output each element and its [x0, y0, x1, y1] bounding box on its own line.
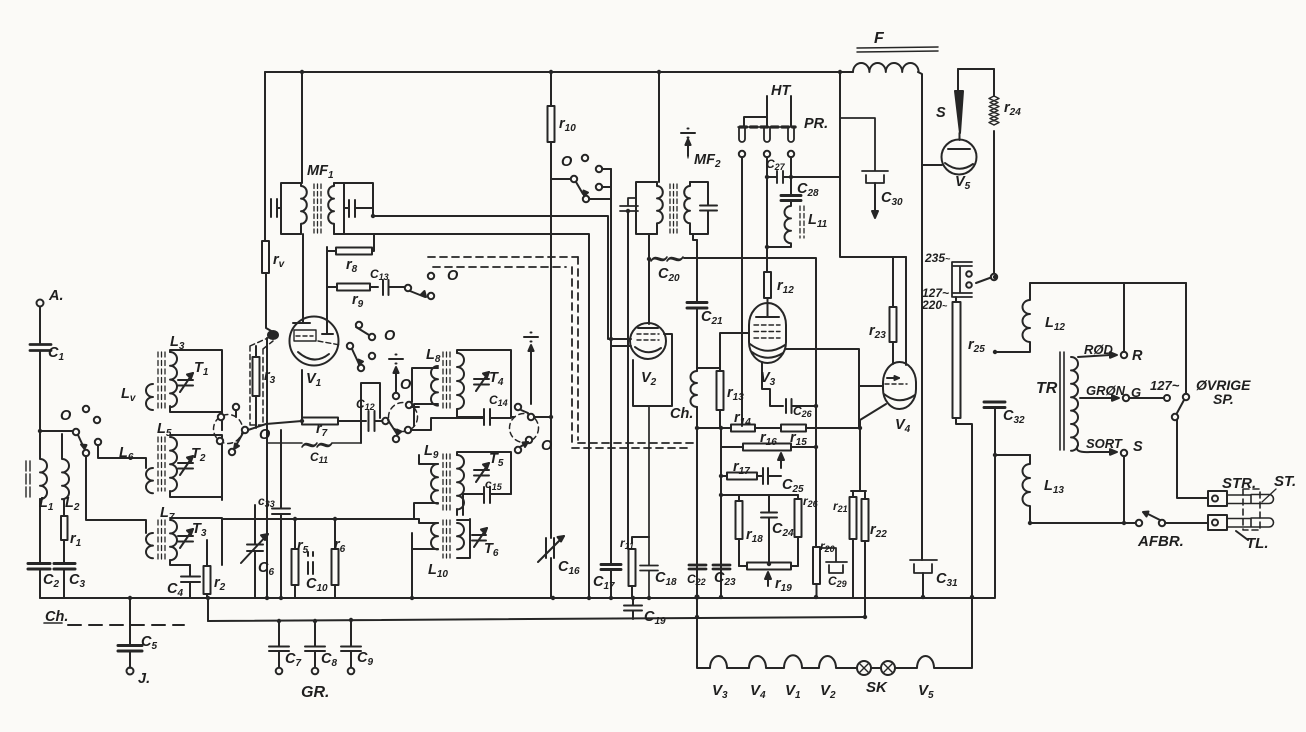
svg-text:r6: r6 [334, 537, 346, 555]
svg-text:SK: SK [866, 679, 888, 696]
svg-text:r15: r15 [790, 430, 807, 448]
resistor r9 [327, 286, 378, 288]
coil L2 [62, 434, 69, 499]
resistor r2 [206, 540, 208, 598]
svg-text:C2: C2 [43, 572, 59, 590]
capacitor C9 [341, 620, 361, 668]
svg-text:O: O [400, 377, 412, 393]
wire: main bottom bus [40, 597, 995, 599]
tube V1 [290, 317, 339, 366]
transformer MF2 [658, 72, 660, 182]
wire: C5 lead from bus [129, 598, 131, 645]
capacitor C25 [763, 468, 781, 484]
resistor r25 [953, 302, 961, 418]
variable capacitor C6 [247, 505, 263, 598]
resistor r26 [797, 495, 799, 566]
ground symbol (S3) [530, 346, 532, 404]
trimmer T6 [472, 535, 486, 541]
svg-text:C27: C27 [766, 157, 786, 172]
svg-text:L9: L9 [424, 443, 439, 461]
rotary switch S3 [510, 414, 539, 443]
svg-text:L10: L10 [428, 562, 448, 580]
svg-text:r24: r24 [1004, 100, 1021, 118]
wire: switch tap to L6 [98, 445, 146, 468]
wire: L10 box [457, 519, 470, 558]
wire: V5 left lead [922, 164, 942, 166]
coil L8 primary [431, 366, 438, 406]
transformer TR [1060, 352, 1064, 450]
resistor r19 tapped [739, 565, 798, 567]
resistor r3 [255, 346, 257, 428]
svg-text:Ch.: Ch. [45, 609, 68, 625]
svg-text:V2: V2 [641, 370, 657, 388]
resistor r24 coil [993, 69, 995, 96]
coil L5 with core [170, 437, 177, 491]
connector ST dashed shell [1243, 489, 1260, 530]
capacitor C23 [713, 565, 730, 569]
svg-text:SORT: SORT [1086, 436, 1123, 451]
svg-text:C23: C23 [714, 570, 736, 588]
capacitor C27 [767, 171, 791, 183]
svg-text:c15: c15 [485, 477, 503, 492]
svg-text:C12: C12 [356, 397, 375, 412]
wire: y519 link bus [222, 519, 419, 598]
capacitor C14 [484, 409, 490, 425]
resistor r4 [262, 241, 269, 273]
switch O (V1 output) [356, 322, 362, 328]
wire: output top rail [1030, 282, 1186, 284]
capacitor C2 [28, 564, 50, 570]
wire: V2 aux horizontal [611, 345, 631, 347]
resistor r23 [892, 257, 894, 364]
node J terminal [129, 651, 131, 668]
svg-text:C18: C18 [655, 570, 677, 588]
capacitor C1 [30, 345, 51, 351]
capacitor C26 [786, 399, 792, 413]
wire: V3 plate right to V4 [786, 349, 882, 428]
capacitor MF2 left cap [620, 198, 638, 211]
svg-text:G: G [1131, 385, 1141, 400]
svg-text:L13: L13 [1044, 478, 1064, 496]
resistor r13 [697, 368, 720, 428]
wire: rotary S1 taps [222, 410, 236, 430]
svg-text:TR: TR [1036, 380, 1058, 397]
svg-text:r23: r23 [869, 323, 886, 341]
capacitor C8 [305, 621, 325, 668]
wire: antenna lead [39, 307, 41, 432]
svg-text:r18: r18 [746, 527, 763, 545]
svg-text:L1: L1 [39, 495, 54, 513]
capacitor C5 [118, 646, 142, 652]
svg-text:r10: r10 [559, 116, 576, 134]
capacitor C33 [272, 430, 290, 598]
svg-text:C9: C9 [357, 650, 373, 668]
wire: L13 to AFBR [1030, 522, 1135, 524]
svg-text:TL.: TL. [1246, 535, 1269, 552]
svg-text:r22: r22 [870, 522, 887, 540]
svg-text:V5: V5 [955, 174, 971, 192]
resistor r6 [334, 519, 336, 598]
svg-text:C7: C7 [285, 651, 301, 669]
switch ØVRIGE [1183, 394, 1189, 400]
svg-text:V5: V5 [918, 682, 934, 701]
capacitor C7 [269, 621, 289, 668]
wire: long vertical line x611 [610, 169, 612, 598]
wire: C27 node to x840 [791, 174, 840, 195]
coil L7 left winding [146, 533, 153, 558]
capacitor C22 [689, 565, 706, 569]
coil L13 [1023, 455, 1030, 523]
wire: S2 to L8 primary [411, 407, 419, 430]
wire: SORT tap [1077, 445, 1110, 452]
svg-text:r3: r3 [264, 368, 276, 386]
svg-text:AFBR.: AFBR. [1137, 533, 1184, 550]
trimmer T5 [474, 470, 489, 476]
capacitor C31 [910, 560, 937, 573]
svg-text:L11: L11 [808, 212, 828, 230]
resistor r18 [738, 495, 740, 566]
resistor r5 [294, 519, 296, 598]
resistor r1 [63, 499, 65, 563]
capacitor C32 [984, 402, 1005, 408]
svg-text:T2: T2 [191, 446, 206, 464]
wire: V2 anode box [633, 334, 672, 406]
svg-text:Ch.: Ch. [670, 406, 693, 422]
choke Ch [691, 371, 698, 407]
svg-text:C14: C14 [489, 393, 508, 408]
wire: R drop from rail [1123, 283, 1125, 352]
tube V3 [749, 303, 786, 363]
svg-text:L5: L5 [157, 421, 172, 439]
wire: second bottom bus [208, 617, 865, 621]
wire: S drop to AFBR line [1123, 456, 1125, 523]
connector PR [738, 126, 796, 128]
wire: S r24 top bar [958, 68, 994, 70]
svg-text:C29: C29 [828, 574, 847, 589]
resistor r17 [727, 473, 757, 480]
coil L1 [40, 431, 47, 499]
resistor r15 [781, 425, 806, 432]
capacitor C30 [840, 118, 888, 183]
wire: V3 cathode to C26 [762, 362, 783, 406]
wire: T3 box [170, 518, 222, 565]
capacitor MF2 right cap [700, 206, 717, 211]
wire: r13 to bus [720, 428, 722, 598]
wire: x628 MF2 cap line [627, 211, 629, 549]
resistor r10 [548, 106, 555, 142]
svg-text:O: O [447, 268, 459, 284]
svg-text:T3: T3 [192, 521, 207, 539]
wire: V4 right top lead [905, 257, 907, 365]
svg-text:rv: rv [273, 252, 286, 270]
wire: L9 secondary box [457, 452, 511, 515]
svg-text:T1: T1 [194, 360, 209, 378]
svg-text:F: F [874, 30, 885, 47]
capacitor C10 [308, 552, 313, 574]
wire: RØD tap [1078, 355, 1110, 357]
wire: antenna horizontal to switch [40, 430, 72, 432]
svg-text:220~: 220~ [921, 298, 948, 312]
svg-text:L3: L3 [170, 334, 185, 352]
svg-text:r20: r20 [820, 539, 835, 554]
svg-text:C5: C5 [141, 634, 157, 652]
capacitor C20 twisted [651, 257, 683, 261]
wire: ØVRIGE drop to STR [1177, 420, 1208, 498]
svg-text:r2: r2 [214, 575, 226, 593]
wire: C20 line to r20 [815, 406, 817, 547]
trimmer T1 [178, 380, 193, 386]
svg-text:HT: HT [771, 83, 791, 99]
capacitor C19 [624, 598, 642, 619]
resistor r16 tapped [721, 446, 816, 448]
svg-text:C21: C21 [701, 309, 723, 327]
node A terminal [37, 300, 44, 307]
connector STR [1208, 491, 1227, 506]
svg-text:V1: V1 [306, 371, 322, 389]
svg-text:V4: V4 [750, 682, 766, 701]
ground symbol (MF2) [687, 140, 689, 156]
svg-text:C8: C8 [321, 651, 337, 669]
capacitor C21 [687, 303, 707, 309]
svg-text:C16: C16 [558, 559, 580, 577]
wire: line B from MF1 to bus [344, 234, 589, 598]
rotary switch S2 [389, 403, 418, 432]
wire: bus link at x208 [207, 598, 209, 621]
switch AFBR [1136, 520, 1142, 526]
svg-text:V3: V3 [712, 682, 728, 701]
wire: MF2 secondary to V2 grid [648, 234, 650, 324]
wire: T2 box [170, 435, 222, 500]
wire: L1 bottom to C2 [39, 499, 41, 563]
svg-text:GR.: GR. [301, 684, 329, 701]
svg-text:R: R [1132, 348, 1143, 364]
svg-text:S: S [936, 105, 946, 121]
svg-text:O: O [541, 438, 553, 454]
capacitor C29 [820, 548, 847, 573]
svg-text:r19: r19 [775, 576, 792, 594]
svg-text:C24: C24 [772, 521, 794, 539]
svg-text:C10: C10 [306, 576, 328, 594]
lamp SK1 [857, 661, 871, 675]
wire: r18 box top [721, 494, 798, 496]
connector TL [1208, 515, 1227, 530]
switch O (antenna) [73, 429, 79, 435]
node grid junction blob [268, 331, 278, 339]
svg-text:S: S [1133, 439, 1143, 455]
svg-text:GRØN: GRØN [1086, 383, 1126, 398]
svg-text:C28: C28 [797, 181, 819, 199]
wire: long vertical line x551 [550, 72, 552, 598]
capacitor C17 [601, 565, 621, 570]
coil L12 [995, 283, 1030, 352]
svg-text:235~: 235~ [924, 251, 951, 265]
wire: T1 box [170, 350, 222, 430]
wire: rail right corner segment [918, 72, 922, 560]
wire: grid return vertical [266, 338, 268, 598]
connector prongs [1227, 495, 1274, 504]
ground symbol (S2) [395, 368, 397, 393]
svg-text:J.: J. [138, 671, 150, 687]
resistor r22 [864, 491, 866, 617]
svg-text:C30: C30 [881, 190, 903, 208]
coil L10 left [431, 523, 438, 549]
svg-text:MF2: MF2 [694, 152, 721, 170]
wire: x697 plate line [696, 240, 698, 598]
resistor r7 [302, 418, 338, 425]
wire: HT leads [744, 96, 791, 126]
capacitor MF1 right cap [344, 200, 373, 217]
svg-text:C6: C6 [258, 560, 274, 578]
capacitor C18 [640, 406, 658, 598]
coil L7 with core [170, 520, 177, 560]
svg-text:r17: r17 [733, 459, 750, 477]
transformer MF1 [301, 72, 303, 183]
svg-text:O: O [384, 328, 396, 344]
svg-text:V2: V2 [820, 682, 836, 701]
capacitor MF1 left cap [271, 199, 281, 217]
wire: C32 drop [995, 409, 1030, 597]
svg-text:V3: V3 [760, 370, 776, 388]
svg-text:V1: V1 [785, 682, 801, 701]
svg-text:r8: r8 [346, 257, 358, 275]
resistor r20 [813, 547, 820, 584]
wire: S3 taps [511, 416, 551, 418]
wire: V1 cathode down [301, 370, 303, 421]
wire: r11 C18 jog [632, 537, 649, 543]
tube V4 [883, 362, 916, 409]
svg-text:O: O [561, 154, 573, 170]
choke F [853, 63, 919, 72]
wire: Ch dashed chassis line [44, 622, 62, 624]
capacitor C24 [761, 495, 777, 562]
resistor r11 [629, 549, 636, 586]
wire: line A from MF1 to C17 [344, 183, 631, 339]
coil L6 [146, 468, 153, 493]
lamp SK2 [881, 661, 895, 675]
wire: switch arm to L7 row [86, 456, 146, 533]
coil L11 [768, 201, 791, 248]
wire: pin2 drop to r12 [766, 157, 768, 272]
svg-text:SP.: SP. [1213, 391, 1234, 407]
wire: dashed AVC run [428, 257, 695, 443]
svg-text:T4: T4 [489, 370, 504, 388]
svg-text:T5: T5 [489, 451, 504, 469]
wire: C2 to bus [39, 569, 41, 598]
svg-text:C19: C19 [644, 609, 666, 627]
trimmer T3 [178, 536, 193, 542]
svg-text:r9: r9 [352, 292, 364, 310]
wire: C11 link to V1 switch [361, 383, 380, 443]
svg-text:A.: A. [48, 288, 64, 304]
capacitor C3 [54, 564, 75, 570]
coil L3 with core [170, 352, 177, 407]
coil L9 secondary with core [457, 455, 464, 509]
svg-text:Lv: Lv [121, 386, 137, 404]
svg-text:r5: r5 [297, 538, 309, 556]
svg-text:V4: V4 [895, 417, 911, 435]
trimmer T4 [474, 379, 489, 385]
svg-text:MF1: MF1 [307, 163, 334, 181]
capacitor C15 [484, 487, 490, 503]
svg-text:PR.: PR. [804, 116, 828, 132]
switch O (after C13) [405, 285, 411, 291]
wire: r7 line from rotary [248, 421, 302, 430]
svg-text:O: O [60, 408, 72, 424]
svg-text:L12: L12 [1045, 315, 1065, 333]
tube V5 [942, 140, 977, 175]
svg-text:C4: C4 [167, 581, 183, 599]
svg-text:r1: r1 [70, 531, 82, 549]
resistor r21 [852, 491, 854, 598]
coil L8 secondary with core [457, 353, 464, 409]
coil Lv [146, 384, 153, 410]
switch S pointer [955, 91, 963, 133]
svg-text:RØD: RØD [1084, 342, 1114, 357]
capacitor C4 [181, 565, 200, 598]
resistor r8 [327, 234, 374, 251]
svg-text:L2: L2 [65, 495, 80, 513]
svg-text:STR.: STR. [1222, 475, 1256, 492]
heater chain [697, 598, 857, 668]
svg-text:C1: C1 [48, 345, 64, 363]
svg-text:T6: T6 [484, 541, 499, 559]
switch O (r10 wave change) [551, 178, 570, 180]
wire: GRØN tap [1080, 397, 1112, 399]
wire: C3 to bus [63, 569, 65, 598]
svg-text:C13: C13 [370, 267, 389, 282]
wire: r17 line [721, 447, 763, 495]
wire: screen line y428 [697, 427, 859, 429]
svg-text:r12: r12 [777, 278, 794, 296]
wire: L8 secondary box [457, 350, 511, 417]
resistor r14 [731, 425, 755, 432]
trimmer T2 [178, 463, 193, 469]
capacitor C12 [369, 411, 375, 431]
svg-text:L8: L8 [426, 347, 441, 365]
svg-text:127~: 127~ [1150, 378, 1180, 393]
resistor r12 [764, 272, 771, 298]
svg-text:ST.: ST. [1274, 473, 1296, 490]
wire: V4 cathode to r21 r22 [851, 404, 886, 491]
svg-text:L6: L6 [119, 445, 134, 463]
capacitor C13 [383, 280, 389, 295]
svg-text:C32: C32 [1003, 408, 1025, 426]
svg-text:C11: C11 [310, 450, 328, 465]
wire: V3 grid left [720, 333, 749, 368]
variable capacitor C16 [546, 538, 554, 558]
wire: pin3 drop [790, 157, 792, 174]
coil L9 primary [431, 464, 438, 504]
svg-text:C20: C20 [658, 266, 680, 284]
svg-text:r21: r21 [833, 499, 848, 514]
voltage selector [952, 262, 972, 297]
wire: r4 branch [265, 72, 273, 332]
svg-text:C31: C31 [936, 571, 958, 589]
capacitor C28 [781, 196, 801, 201]
capacitor C11 twisted [267, 443, 361, 447]
svg-text:L7: L7 [160, 505, 175, 523]
svg-text:r25: r25 [968, 337, 985, 355]
svg-text:O: O [259, 427, 271, 443]
rotary switch S1 [214, 415, 243, 444]
svg-text:C3: C3 [69, 572, 85, 590]
svg-text:C25: C25 [782, 477, 804, 495]
tube V2 [630, 323, 666, 359]
wire: x840 feed [840, 72, 906, 257]
svg-text:r16: r16 [760, 430, 777, 448]
coil L10 right with core [457, 523, 464, 549]
wire: top HT rail [265, 71, 853, 73]
